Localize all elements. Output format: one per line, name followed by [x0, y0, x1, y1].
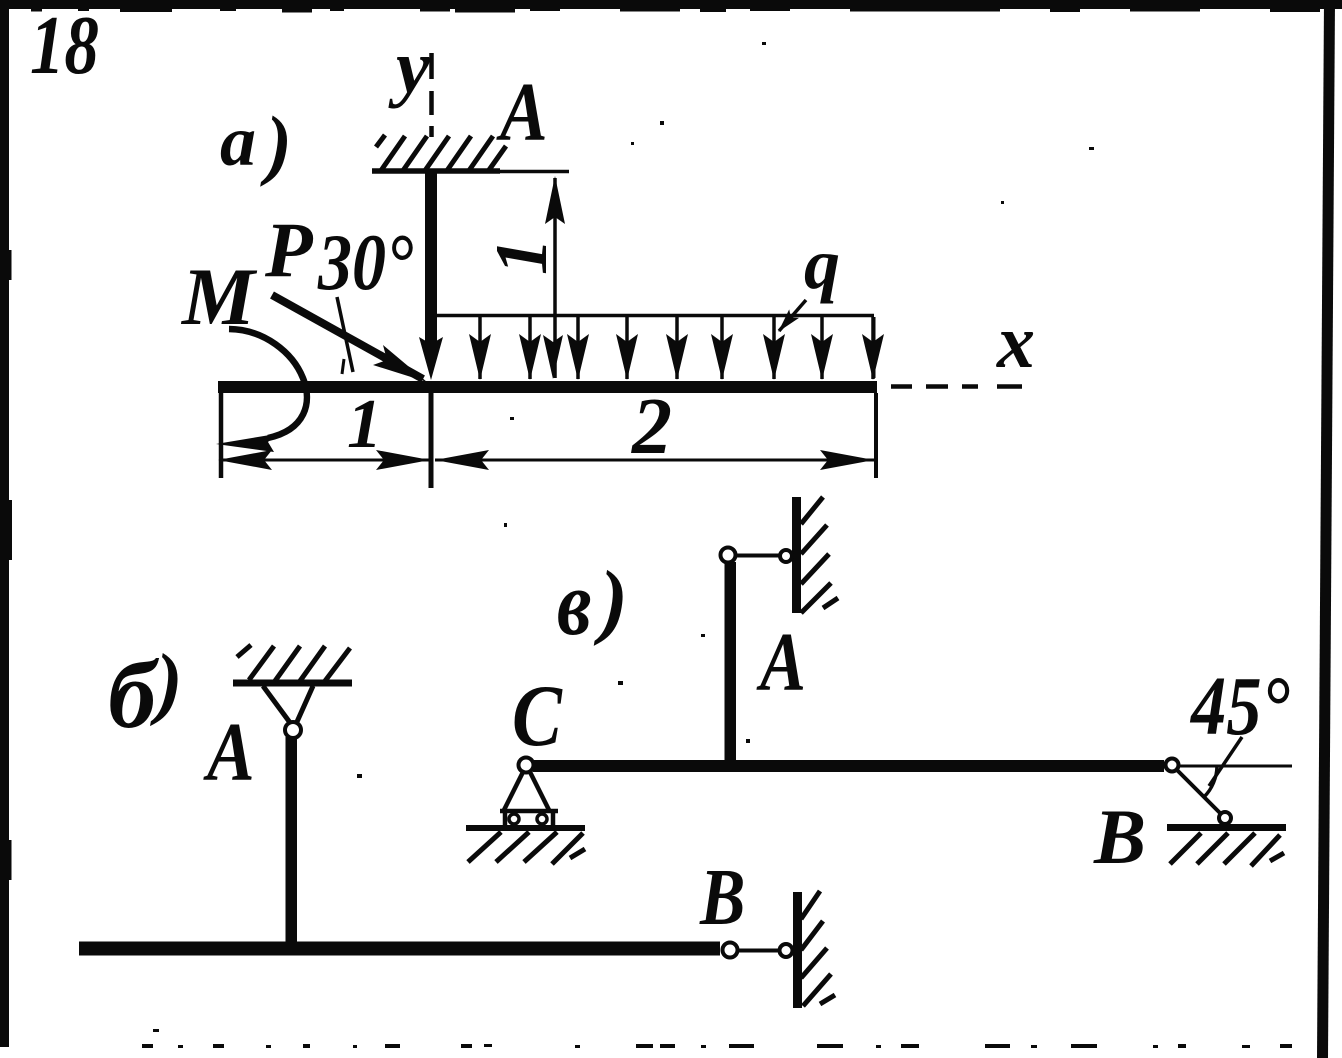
45deg link rod	[1176, 769, 1221, 814]
ceiling line (fig b)	[233, 680, 352, 687]
svg-text:18: 18	[30, 0, 99, 92]
wall pin circle A (fig v)	[780, 550, 792, 562]
q arrow 3	[576, 317, 580, 379]
q arrow 2	[528, 317, 532, 379]
q arrow 6	[720, 317, 724, 379]
vertical dimension arrow up	[545, 176, 565, 224]
ground hatching at B	[1170, 833, 1284, 866]
30deg leader barb	[342, 359, 344, 374]
vertical rod (fig v)	[725, 562, 737, 762]
wall hatching (fig b)	[801, 891, 835, 1006]
ground hatching at C	[468, 832, 585, 864]
svg-text:B: B	[1093, 793, 1146, 880]
link rod to wall A (fig v)	[735, 554, 780, 558]
hinge pin circle A (fig b)	[285, 722, 301, 738]
svg-text:A: A	[495, 66, 547, 159]
q arrow 1	[478, 317, 482, 379]
column arrowhead onto beam	[419, 337, 443, 380]
force P arrow	[272, 295, 423, 379]
dimension line 1 (left span)	[219, 459, 429, 462]
svg-text:30°: 30°	[317, 219, 413, 307]
svg-text:B: B	[699, 854, 745, 942]
ceiling hatching	[376, 135, 506, 172]
roller circle left	[509, 814, 519, 824]
wall line at A (fig v)	[792, 497, 801, 613]
ground line at C	[466, 825, 585, 831]
lower pin circle B (fig v)	[1219, 812, 1231, 824]
svg-text:45°: 45°	[1189, 659, 1290, 752]
vertical rod (fig b)	[286, 737, 298, 942]
svg-text:M: M	[180, 251, 258, 342]
svg-text:P: P	[264, 206, 314, 293]
hinge triangle (fig b)	[263, 686, 313, 724]
roller circle right	[537, 814, 547, 824]
ceiling line of fixed support A	[372, 168, 500, 174]
page border left bar	[0, 0, 9, 1047]
extension line left end of beam	[219, 381, 224, 478]
svg-text:A: A	[202, 706, 254, 799]
scan noise specks	[153, 42, 1094, 1032]
q arrow 5	[675, 317, 679, 379]
bottom dotted residue row	[142, 1044, 1292, 1048]
q arrow 7	[772, 317, 776, 379]
moment M arrowhead	[216, 434, 276, 452]
page border right bar	[1317, 0, 1335, 1058]
upper pin circle A (fig v)	[721, 548, 736, 563]
ground line at B	[1167, 824, 1286, 831]
svg-text:A: A	[756, 616, 806, 709]
beam (fig v)	[533, 760, 1164, 772]
beam end pin circle (fig v right)	[1166, 759, 1179, 772]
extension line below column	[429, 393, 434, 488]
svg-text:в: в	[557, 553, 592, 655]
svg-text:x: x	[996, 300, 1035, 384]
column from support A down to beam	[425, 171, 437, 354]
wall pin circle (fig b)	[780, 944, 793, 957]
roller support base legs	[505, 811, 553, 825]
y axis dashed line	[429, 53, 434, 137]
q arrow 9	[871, 317, 875, 379]
svg-text:C: C	[512, 666, 563, 764]
roller support triangle at C	[504, 770, 549, 810]
svg-text:q: q	[804, 224, 840, 304]
svg-text:1: 1	[347, 386, 382, 463]
dimension line 2 (right span)	[435, 459, 874, 462]
vertical dimension line (length 1) shaft	[553, 178, 557, 378]
45deg leader line	[1209, 737, 1242, 786]
moment M arc	[229, 329, 307, 438]
wall hatching at A (fig v)	[801, 497, 838, 613]
30deg leader line	[337, 297, 353, 372]
pin circle C	[519, 758, 534, 773]
x axis dashed line	[891, 384, 1022, 389]
vertical dimension arrow down	[543, 335, 563, 379]
page border top bar	[0, 0, 1342, 9]
extension line right end of beam	[874, 393, 878, 478]
link rod to wall (fig b)	[737, 949, 780, 953]
svg-text:2: 2	[631, 383, 672, 471]
roller support base line	[500, 809, 558, 814]
svg-text:a: a	[220, 101, 256, 181]
45deg angle arc	[1204, 766, 1217, 797]
thin horizontal reference line	[1178, 765, 1292, 768]
beam end pin circle (fig b)	[723, 943, 738, 958]
svg-text:1: 1	[481, 238, 563, 275]
q leader line with small arrow	[779, 300, 806, 331]
q arrow 8	[820, 317, 824, 379]
beam (fig b)	[79, 942, 720, 956]
wall line (fig b)	[793, 892, 802, 1008]
main beam (fig a)	[218, 381, 877, 393]
distributed load top line	[431, 314, 874, 318]
q arrow 4	[625, 317, 629, 379]
ceiling hatching (fig b)	[237, 645, 350, 681]
svg-text:б: б	[108, 641, 160, 748]
distributed load right boundary	[873, 317, 876, 378]
